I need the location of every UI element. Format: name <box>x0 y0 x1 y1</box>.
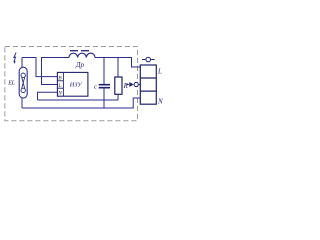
wire lamp top lead <box>21 58 23 68</box>
svg-text:N: N <box>57 91 62 97</box>
svg-text:EL: EL <box>7 81 15 87</box>
capacitor top lead <box>103 58 105 85</box>
svg-text:L: L <box>58 83 62 89</box>
luminaire housing (dashed boundary) <box>5 47 138 121</box>
choke Dr (inductor) <box>69 53 95 57</box>
resistor R bottom lead <box>117 94 119 100</box>
wire choke left to igniter L drop <box>42 58 70 85</box>
svg-text:Др: Др <box>75 61 84 69</box>
resistor R top lead <box>117 58 119 78</box>
capacitor bottom lead <box>103 88 105 108</box>
wire lamp top to igniter B drop <box>22 58 58 77</box>
resistor R body <box>115 77 122 94</box>
capacitor C plates <box>99 85 110 88</box>
wire igniter N pin to neutral rail <box>38 92 58 100</box>
igniter unit block (ИЗУ) <box>57 72 88 96</box>
svg-text:c: c <box>94 83 97 90</box>
wire bottom neutral rail <box>22 98 140 108</box>
detachable earth contact (plug and socket) <box>126 82 140 87</box>
svg-text:ИЗУ: ИЗУ <box>69 81 83 88</box>
svg-text:L: L <box>157 67 162 75</box>
wire neutral mid rail <box>38 99 119 101</box>
wire lamp bottom lead <box>21 98 23 108</box>
choke core dashes <box>70 50 89 52</box>
svg-text:N: N <box>157 97 163 105</box>
fuse/contact ring above terminal <box>142 57 155 62</box>
lamp EL (HPS lamp symbol) <box>19 67 27 98</box>
terminal block XT <box>140 65 156 104</box>
high voltage lightning bolt <box>14 53 16 62</box>
wire choke right to L terminal riser <box>95 58 140 68</box>
svg-text:R: R <box>123 82 129 90</box>
